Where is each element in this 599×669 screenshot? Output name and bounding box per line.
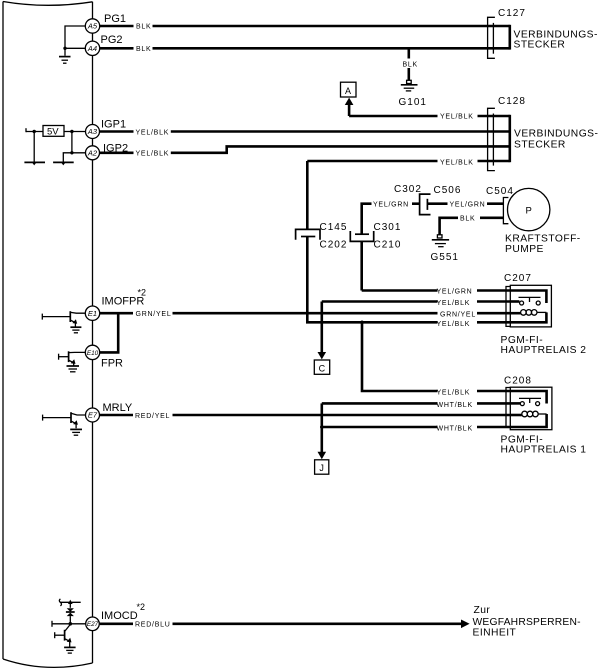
ECM/PCM boundary top torn edge xyxy=(3,2,93,6)
wire IGP2 YEL/BLK to C128 pin 3 xyxy=(100,146,510,152)
arrow down to connector J xyxy=(318,452,327,459)
wire GRN/YEL IMOFPR to C207 pin 3 xyxy=(100,312,511,315)
ground Q1 xyxy=(70,327,81,333)
wire BLK branch to G101 xyxy=(407,48,410,80)
ground Q4 xyxy=(64,647,76,653)
svg-text:KRAFTSTOFF-: KRAFTSTOFF- xyxy=(505,234,581,245)
svg-text:G101: G101 xyxy=(399,97,427,108)
connector A box xyxy=(341,82,357,97)
svg-text:A4: A4 xyxy=(87,44,97,53)
svg-text:C202: C202 xyxy=(320,240,348,251)
svg-text:YEL/BLK: YEL/BLK xyxy=(440,114,474,121)
relay C207 coil link xyxy=(537,311,546,313)
wire IGP1 to IGP2 link xyxy=(71,132,73,153)
relay C208 contact hooks xyxy=(520,402,539,406)
svg-text:Zur: Zur xyxy=(474,605,491,616)
reference terminal bar 1 xyxy=(24,161,45,163)
arrow up to connector A xyxy=(348,104,351,117)
svg-text:BLK: BLK xyxy=(403,61,418,68)
svg-text:YEL/BLK: YEL/BLK xyxy=(437,389,471,396)
junction dot A5/A4 ground xyxy=(63,47,66,50)
wire YEL/GRN (C301 up and right to C302) xyxy=(362,204,420,235)
relay C207 pin2 stub xyxy=(510,300,519,303)
svg-text:GRN/YEL: GRN/YEL xyxy=(136,311,172,318)
relay C208 coil xyxy=(522,411,538,417)
wire IMOCD internal node xyxy=(52,623,86,625)
terminal 1 arrowhead xyxy=(32,162,37,165)
transistor Q2 base tick xyxy=(58,354,60,360)
zener diode (clamp) upper triangle xyxy=(67,608,74,612)
junction dot YEL/BLK to C208 xyxy=(360,321,364,325)
wire YEL/GRN column (C207 pin 1 to C301) xyxy=(362,241,511,290)
wire YEL/BLK C128 pin 4 stub xyxy=(307,160,510,163)
svg-text:FPR: FPR xyxy=(101,357,123,369)
wire 5V feed xyxy=(26,131,43,133)
svg-text:YEL/BLK: YEL/BLK xyxy=(437,300,471,307)
zener diode bar xyxy=(66,611,75,613)
junction dot WHT/BLK xyxy=(320,425,324,429)
svg-text:WEGFAHRSPERREN-: WEGFAHRSPERREN- xyxy=(473,617,581,628)
svg-text:C207: C207 xyxy=(504,273,532,284)
ground internal (PG1/PG2) xyxy=(59,57,71,64)
wire zener to node xyxy=(69,616,71,624)
svg-text:E1: E1 xyxy=(88,309,97,318)
transistor Q2 base xyxy=(59,356,69,358)
svg-text:C145: C145 xyxy=(320,222,348,233)
svg-text:RED/BLU: RED/BLU xyxy=(135,622,171,629)
svg-text:PUMPE: PUMPE xyxy=(505,244,544,255)
svg-text:VERBINDUNGS-: VERBINDUNGS- xyxy=(514,129,598,140)
svg-text:YEL/BLK: YEL/BLK xyxy=(437,321,471,328)
wire YEL/BLK column (C128 pin4 to connector C145) xyxy=(306,161,309,229)
internal supply line xyxy=(60,601,80,603)
ECM/PCM pin rail xyxy=(92,2,94,663)
pin circle A2 xyxy=(86,146,100,160)
svg-text:MRLY: MRLY xyxy=(103,402,133,414)
fuel pump motor circle xyxy=(508,188,550,230)
svg-text:EINHEIT: EINHEIT xyxy=(473,628,517,639)
relay C208 pin2 stub xyxy=(510,402,520,405)
ground G101 xyxy=(401,85,418,91)
wire 5V box to pin A3 xyxy=(64,131,86,133)
wire BLK pump to G551 xyxy=(440,218,504,235)
transistor Q4 base tick xyxy=(54,632,56,638)
svg-text:E10: E10 xyxy=(87,350,99,357)
svg-text:C: C xyxy=(319,363,326,373)
arrow up internal supply xyxy=(68,600,73,608)
transistor Q2 bar xyxy=(68,351,70,362)
wire YEL/BLK column (C202 to C207 pin 4) xyxy=(307,237,510,323)
svg-text:A3: A3 xyxy=(87,127,98,136)
transistor Q4 emitter arrowhead xyxy=(67,638,72,643)
zener diode lower triangle xyxy=(67,613,74,617)
internal supply squiggle tick xyxy=(59,599,61,606)
svg-text:IGP2: IGP2 xyxy=(103,142,128,154)
svg-text:E27: E27 xyxy=(87,621,99,628)
svg-text:HAUPTRELAIS 2: HAUPTRELAIS 2 xyxy=(501,345,587,356)
pin circle A3 xyxy=(86,125,100,139)
ground G551 xyxy=(432,240,449,247)
svg-text:YEL/GRN: YEL/GRN xyxy=(373,202,409,209)
svg-text:*2: *2 xyxy=(138,288,147,298)
regulator 5V box xyxy=(43,126,64,137)
wire IGP2 to reference terminal 2 xyxy=(63,153,85,162)
relay C208 box xyxy=(510,387,552,430)
pin circle E7 xyxy=(86,408,100,422)
connector C128 box right edge xyxy=(508,115,511,162)
svg-text:YEL/GRN: YEL/GRN xyxy=(437,289,473,296)
svg-text:C208: C208 xyxy=(504,376,532,387)
transistor Q3 base xyxy=(43,417,71,419)
junction dot IGP2 link xyxy=(70,151,73,154)
svg-text:STECKER: STECKER xyxy=(514,40,566,51)
svg-text:IGP1: IGP1 xyxy=(101,118,126,130)
wire RED/YEL MRLY to C208 pin 3 xyxy=(100,414,511,417)
relay C208 pin3 stub xyxy=(510,414,522,417)
wire to reference terminal 1 xyxy=(33,132,35,162)
connector C128 pin line xyxy=(492,114,494,166)
svg-text:A: A xyxy=(345,86,351,96)
connector C127 pin line xyxy=(492,23,494,54)
svg-text:YEL/BLK: YEL/BLK xyxy=(136,129,170,136)
transistor Q4 base xyxy=(55,634,65,636)
svg-text:C506: C506 xyxy=(434,185,462,196)
svg-text:STECKER: STECKER xyxy=(514,140,566,151)
transistor Q1 emitter arrowhead xyxy=(72,319,77,324)
transistor Q1 collector xyxy=(71,311,86,314)
ECM/PCM boundary bottom torn edge xyxy=(3,659,93,667)
ground G551 bolt square xyxy=(437,235,442,238)
transistor Q3 bar xyxy=(70,412,72,423)
wire YEL/BLK to C208 pin 1 xyxy=(362,322,510,391)
wire FPR join to GRN/YEL xyxy=(100,314,119,352)
transistor Q2 collector xyxy=(69,351,86,353)
wire IGP1 YEL/BLK to C128 pin 2 xyxy=(100,130,510,133)
ground Q2 xyxy=(67,366,80,372)
wire YEL/BLK C207 pin 2 from connector C xyxy=(322,300,511,303)
pin circle A4 xyxy=(85,41,99,55)
ECM/PCM boundary left edge xyxy=(2,2,4,660)
wire PG1 BLK to C127 pin 1 xyxy=(100,25,510,28)
connector C302/C506 (inline, opens right) xyxy=(420,194,431,215)
pin circle E10 xyxy=(85,345,99,359)
relay C208 pin4 rail xyxy=(510,414,546,427)
pin circle E1 xyxy=(85,306,99,320)
svg-text:PG1: PG1 xyxy=(104,13,126,25)
svg-text:C210: C210 xyxy=(374,240,402,251)
transistor Q1 emitter xyxy=(71,320,76,327)
svg-text:WHT/BLK: WHT/BLK xyxy=(437,402,473,409)
relay C207 coil xyxy=(521,310,537,316)
connector C145/C202 (inline, opens down) xyxy=(296,229,320,239)
arrowhead to immobilizer xyxy=(461,620,470,629)
relay C208 coil link xyxy=(538,413,546,415)
svg-text:*2: *2 xyxy=(137,602,146,612)
svg-text:E7: E7 xyxy=(88,411,98,420)
svg-text:5V: 5V xyxy=(47,127,59,138)
wire RED/BLU IMOCD to immobilizer xyxy=(100,622,463,625)
transistor Q3 emitter arrowhead xyxy=(73,420,78,425)
pin circle A5 xyxy=(85,19,99,33)
relay C207 bracket xyxy=(506,287,510,327)
transistor Q3 base tick xyxy=(42,415,44,421)
svg-text:IMOCD: IMOCD xyxy=(101,610,138,622)
junction dot IMOCD node xyxy=(69,622,73,626)
transistor Q4 emitter xyxy=(65,639,70,647)
svg-text:G551: G551 xyxy=(431,252,459,263)
svg-text:BLK: BLK xyxy=(460,216,475,223)
svg-text:WHT/BLK: WHT/BLK xyxy=(437,425,473,432)
wire WHT/BLK C208 pin 4 xyxy=(322,426,511,429)
relay C208 contact arm xyxy=(519,398,541,403)
terminal 2 arrowhead xyxy=(61,162,66,165)
transistor Q3 collector xyxy=(71,413,85,415)
transistor Q1 bar xyxy=(69,311,71,322)
connector C504 bracket xyxy=(503,198,508,224)
svg-text:C302: C302 xyxy=(394,184,422,195)
arrow down to connector C xyxy=(320,302,323,354)
svg-text:GRN/YEL: GRN/YEL xyxy=(440,311,476,318)
svg-text:C504: C504 xyxy=(486,186,514,197)
connector C127 box right edge xyxy=(508,25,511,50)
terminal tick (5V feed) xyxy=(25,128,27,132)
junction dot 5V left xyxy=(33,130,36,133)
connector C box xyxy=(314,360,329,374)
relay C207 pin1 rail xyxy=(510,291,546,304)
connector C128 bracket xyxy=(488,108,495,170)
svg-text:RED/YEL: RED/YEL xyxy=(135,413,170,420)
ground Q3 xyxy=(70,429,82,435)
relay C207 pin4 rail xyxy=(510,312,546,322)
svg-text:C301: C301 xyxy=(374,222,402,233)
svg-text:YEL/BLK: YEL/BLK xyxy=(136,151,170,158)
svg-text:C127: C127 xyxy=(498,8,526,19)
svg-text:YEL/GRN: YEL/GRN xyxy=(450,202,486,209)
svg-text:A2: A2 xyxy=(87,149,98,158)
transistor Q3 emitter xyxy=(71,421,76,428)
svg-text:J: J xyxy=(319,463,324,473)
svg-text:A5: A5 xyxy=(87,22,98,31)
transistor Q1 base xyxy=(42,316,70,318)
wire YEL/GRN C506 to fuel pump C504 xyxy=(427,202,503,205)
svg-text:PG2: PG2 xyxy=(101,34,123,46)
wire PG1 pin A5 to ground branch xyxy=(65,26,86,48)
svg-text:HAUPTRELAIS 1: HAUPTRELAIS 1 xyxy=(501,445,587,456)
transistor Q1 base tick xyxy=(41,314,43,320)
ground G101 bolt square xyxy=(407,80,412,83)
relay C208 bracket xyxy=(506,388,510,428)
node tick IMOCD line xyxy=(51,621,53,627)
transistor Q4 bar xyxy=(64,630,66,641)
transistor Q2 emitter arrowhead xyxy=(71,359,76,364)
wire PG2 BLK to C127 pin 2 xyxy=(100,47,510,50)
svg-text:BLK: BLK xyxy=(136,46,151,53)
pin circle E27 xyxy=(86,617,100,631)
junction dot IGP1 link xyxy=(70,130,73,133)
svg-text:BLK: BLK xyxy=(136,24,151,31)
wire WHT/BLK C208 pin 2 from connector J xyxy=(322,402,511,405)
svg-text:C128: C128 xyxy=(498,96,526,107)
wire YEL/BLK connector A to C128 pin 1 xyxy=(349,115,510,118)
transistor Q4 collector xyxy=(65,624,70,631)
relay C207 pin3 stub xyxy=(510,312,520,315)
svg-text:P: P xyxy=(526,205,532,216)
relay C207 contact arm xyxy=(519,297,541,302)
wire WHT/BLK vertical to connector J xyxy=(320,403,323,452)
connector J box xyxy=(315,460,329,474)
relay C208 pin1 rail xyxy=(510,391,546,404)
relay C207 box xyxy=(510,285,551,327)
reference terminal bar 2 xyxy=(53,161,74,163)
svg-text:YEL/BLK: YEL/BLK xyxy=(440,160,474,167)
connector C301/C210 (inline, opens up) xyxy=(350,231,373,241)
wire PG2 pin A4 to ground branch xyxy=(65,48,86,56)
relay C207 contact hooks xyxy=(520,301,541,305)
connector C127 bracket xyxy=(488,17,495,58)
transistor Q2 emitter xyxy=(69,360,74,366)
